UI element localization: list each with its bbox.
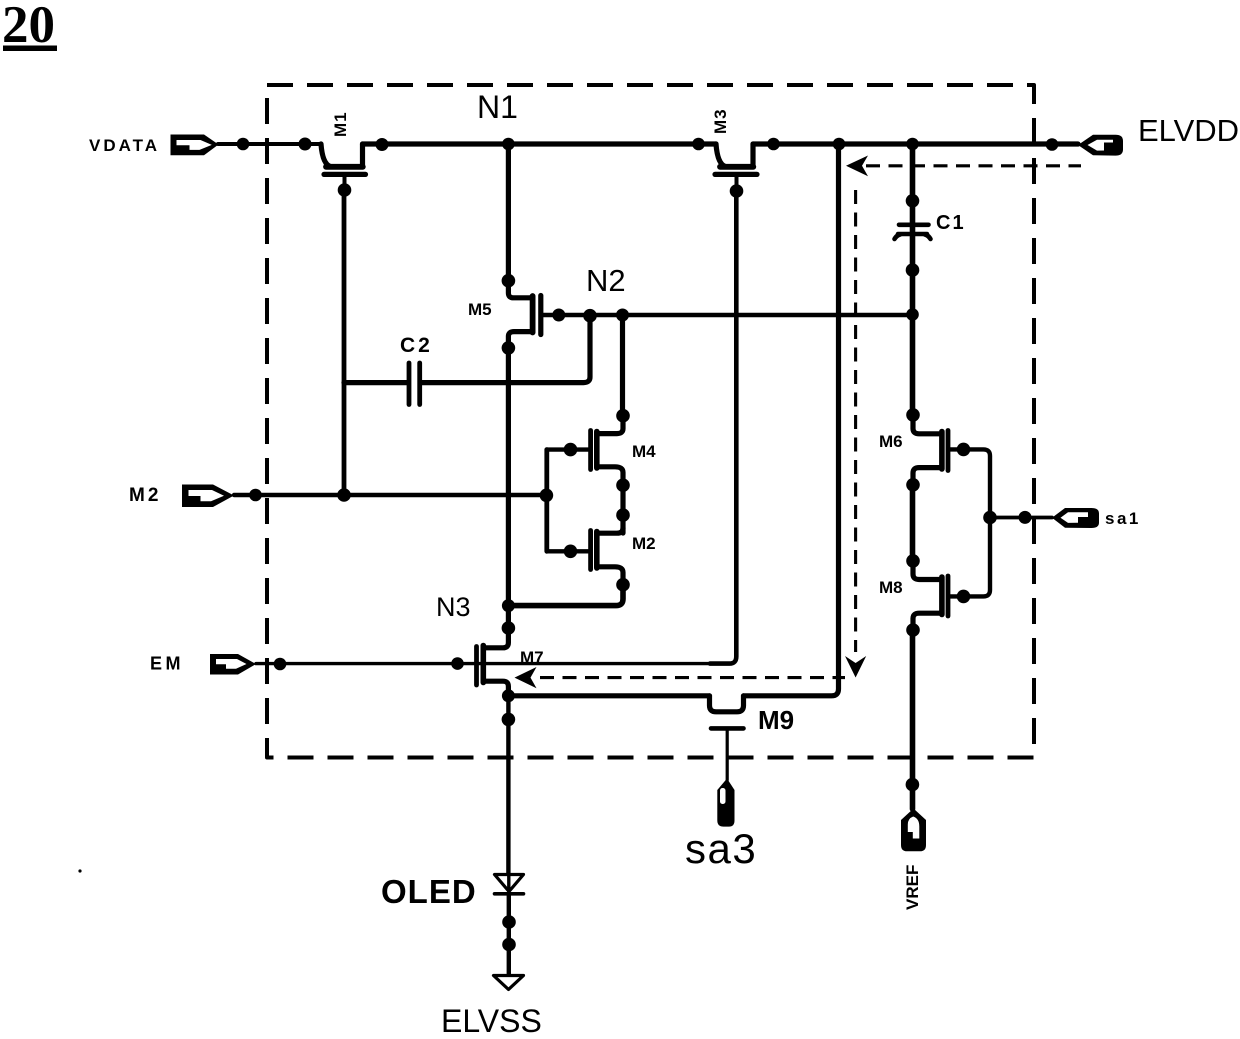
transistor M9 xyxy=(710,696,744,780)
transistor M4 xyxy=(547,416,623,485)
wire EM row to M3 gate xyxy=(256,662,710,665)
wire N1 down to M5 xyxy=(506,144,511,279)
svg-text:N1: N1 xyxy=(477,89,518,125)
wire OLED to ground xyxy=(507,894,511,975)
port ELVDD xyxy=(1078,113,1239,156)
dashed feedback arrow (vertical) xyxy=(854,190,857,652)
svg-text:C2: C2 xyxy=(400,334,433,357)
dashed feedback arrow into M7 (horizontal bottom) xyxy=(540,676,845,679)
dashed feedback arrow from ELVDD (horizontal top) xyxy=(866,164,1081,167)
svg-text:sa3: sa3 xyxy=(685,825,757,872)
wire VDATA / N1 / ELVDD row xyxy=(218,142,321,146)
transistor M6 xyxy=(913,415,948,485)
gate tie wire M4/M2 xyxy=(544,450,549,552)
svg-text:N2: N2 xyxy=(586,263,626,298)
wire M1 gate down to scan row xyxy=(342,190,347,495)
wire N2 down to M4 xyxy=(620,315,625,416)
wire M5 source down to N3 xyxy=(506,347,511,606)
figure label 20 xyxy=(2,0,57,54)
svg-text:M2: M2 xyxy=(129,485,161,506)
gate tie wire M6/M8 to sa1 xyxy=(951,449,991,596)
svg-text:M1: M1 xyxy=(331,111,350,137)
transistor M2 xyxy=(547,528,623,585)
transistor M8 xyxy=(913,561,948,630)
wire N2 gate row (M5 gate to VREF column) xyxy=(543,313,913,318)
wire N2 down to C2 xyxy=(422,316,591,383)
port sa3 xyxy=(685,779,757,873)
svg-text:C1: C1 xyxy=(936,212,966,234)
port M2 (scan input) xyxy=(129,485,234,508)
wire ELVDD/C1/VREF column xyxy=(910,144,916,415)
ground ELVSS symbol xyxy=(494,976,524,990)
wire M7 source down to OLED xyxy=(506,696,510,874)
speck artifact xyxy=(78,869,81,872)
svg-text:M8: M8 xyxy=(879,578,903,597)
transistor M3 xyxy=(715,144,757,190)
wire N3 down to M7 xyxy=(506,606,511,630)
svg-text:OLED: OLED xyxy=(381,873,477,910)
svg-text:sa1: sa1 xyxy=(1105,509,1141,528)
port sa1 xyxy=(1052,508,1141,528)
wire M4 to M2 xyxy=(620,485,625,533)
svg-text:ELVDD: ELVDD xyxy=(1138,113,1239,148)
svg-text:EM: EM xyxy=(150,654,184,674)
port VDATA xyxy=(89,135,219,156)
svg-text:M3: M3 xyxy=(711,108,730,134)
transistor M5 xyxy=(508,279,540,347)
svg-text:M2: M2 xyxy=(632,534,656,553)
svg-text:VDATA: VDATA xyxy=(89,136,160,155)
transistor M7 xyxy=(477,628,509,696)
wire M2 source to N3 xyxy=(508,585,623,606)
svg-text:VREF: VREF xyxy=(903,865,922,910)
wire M9 row and long vertical to N1 row xyxy=(508,693,709,698)
svg-text:M9: M9 xyxy=(758,705,794,735)
port EM xyxy=(150,654,256,675)
svg-text:M4: M4 xyxy=(632,442,656,461)
junction dots on N1 row xyxy=(237,138,1059,152)
svg-text:ELVSS: ELVSS xyxy=(441,1003,542,1039)
wire scan input row xyxy=(234,493,546,497)
OLED diode xyxy=(495,875,524,892)
capacitor C2 xyxy=(409,363,420,405)
transistor M1 xyxy=(321,144,366,189)
capacitor C1 xyxy=(895,225,931,239)
wire C2 left plate to M1-gate line xyxy=(344,380,407,385)
svg-text:M5: M5 xyxy=(468,300,492,319)
pixel circuit dashed boundary box xyxy=(267,85,1034,758)
wire sa1 xyxy=(990,516,1052,520)
svg-text:N3: N3 xyxy=(436,592,471,622)
port VREF xyxy=(901,809,926,911)
svg-text:M6: M6 xyxy=(879,432,903,451)
